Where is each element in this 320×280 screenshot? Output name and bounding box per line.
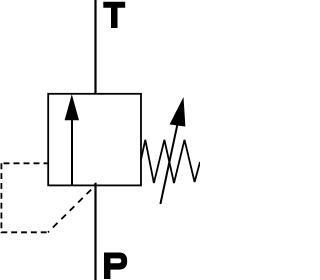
pilot line dashed left and bottom [1, 163, 48, 232]
flow arrow shaft [71, 118, 73, 185]
flow arrow head [65, 94, 79, 120]
pilot line dashed diagonal [48, 187, 94, 233]
adjustment arrow head [170, 97, 186, 127]
pilot line dashed top [0, 162, 48, 164]
spring [141, 140, 200, 183]
wire P line [94, 183, 96, 280]
wire T line [94, 0, 96, 94]
port label T [103, 2, 125, 28]
valve body box [48, 94, 141, 186]
port label P [104, 253, 127, 279]
adjustment arrow shaft [160, 124, 177, 204]
